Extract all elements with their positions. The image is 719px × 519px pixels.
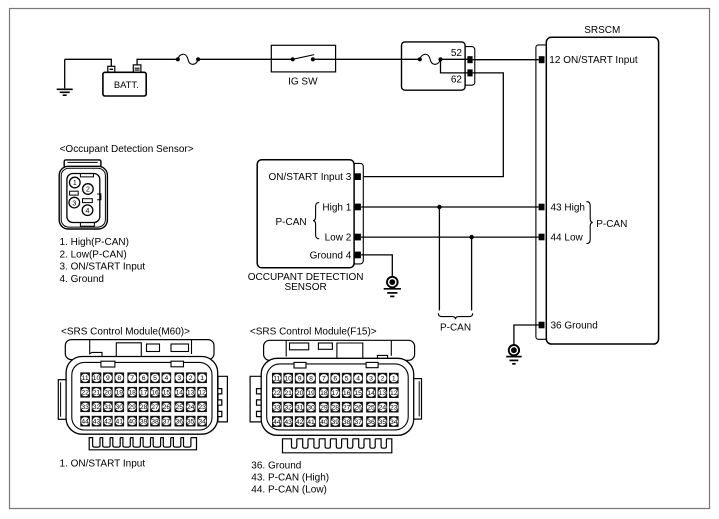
svg-text:6: 6 <box>333 376 337 383</box>
svg-text:13: 13 <box>187 390 195 397</box>
svg-text:34: 34 <box>390 419 398 426</box>
F15 bottom tab strip <box>283 439 392 453</box>
svg-text:ON/START Input 3: ON/START Input 3 <box>268 172 351 183</box>
fusible link (main fuse) <box>176 54 201 64</box>
svg-text:P-CAN: P-CAN <box>275 217 306 228</box>
wire: fusible link to ignition switch <box>198 58 293 60</box>
pin 62 <box>467 69 472 76</box>
svg-text:2: 2 <box>189 375 193 382</box>
svg-text:5: 5 <box>345 376 349 383</box>
svg-text:62: 62 <box>451 74 463 85</box>
svg-text:25: 25 <box>176 404 184 411</box>
F15 connector shell top <box>264 340 415 362</box>
SRSCM pin 12 <box>539 56 545 63</box>
svg-text:14: 14 <box>176 390 184 397</box>
fuse box <box>402 42 466 90</box>
svg-text:3: 3 <box>72 200 76 207</box>
sensor connector cavity 2 <box>83 184 94 195</box>
svg-text:7: 7 <box>130 375 134 382</box>
sensor pin 1 <box>355 204 361 211</box>
svg-text:Low 2: Low 2 <box>325 233 352 244</box>
svg-text:21: 21 <box>284 390 292 397</box>
M60 right teeth <box>218 376 227 422</box>
SRSCM pin 36 <box>539 322 545 329</box>
svg-text:19: 19 <box>116 390 124 397</box>
svg-text:High 1: High 1 <box>322 202 351 213</box>
wire: battery positive to fusible link <box>137 59 178 65</box>
ignition switch IG SW <box>271 45 335 87</box>
svg-text:1. High(P-CAN): 1. High(P-CAN) <box>60 237 129 248</box>
fuse (inside fuse box) <box>418 54 443 64</box>
svg-text:5: 5 <box>153 375 157 382</box>
svg-text:44. P-CAN (Low): 44. P-CAN (Low) <box>251 485 327 496</box>
svg-text:IG SW: IG SW <box>288 77 318 88</box>
wire: sensor Ground 4 to chassis ground <box>361 255 392 276</box>
svg-text:6: 6 <box>142 375 146 382</box>
F15 top tabs <box>294 362 306 368</box>
svg-text:1: 1 <box>73 180 77 187</box>
junction node on Low wire <box>469 235 473 239</box>
svg-text:36: 36 <box>367 419 375 426</box>
svg-text:4: 4 <box>165 375 169 382</box>
svg-text:34: 34 <box>198 419 206 426</box>
sensor connector cavity 4 <box>82 205 93 216</box>
sensor connector cavity 3 <box>69 197 80 208</box>
svg-text:12: 12 <box>390 390 398 397</box>
svg-text:4: 4 <box>356 376 360 383</box>
occupant detection sensor connector drawing <box>59 160 107 229</box>
fuse box connector strip (pins 52/62) <box>458 47 475 86</box>
svg-text:17: 17 <box>140 390 148 397</box>
svg-text:11: 11 <box>82 375 89 382</box>
ground (SRSCM pin 36) <box>506 345 521 364</box>
sensor connector strip <box>348 163 363 264</box>
svg-text:33: 33 <box>81 404 89 411</box>
svg-text:32: 32 <box>93 404 101 411</box>
svg-text:SRSCM: SRSCM <box>584 25 620 36</box>
svg-text:27: 27 <box>343 405 351 412</box>
svg-text:10: 10 <box>93 375 101 382</box>
ground (battery negative) <box>57 59 73 95</box>
svg-text:17: 17 <box>332 390 340 397</box>
svg-text:35: 35 <box>187 419 195 426</box>
svg-text:37: 37 <box>163 419 171 426</box>
F15 right ear <box>412 379 422 420</box>
svg-text:19: 19 <box>307 390 315 397</box>
svg-text:<Occupant Detection Sensor>: <Occupant Detection Sensor> <box>60 144 194 155</box>
svg-text:44: 44 <box>273 419 281 426</box>
svg-text:28: 28 <box>332 405 340 412</box>
svg-text:18: 18 <box>128 390 136 397</box>
F15 pin grid (pins 1-44) <box>272 373 282 384</box>
wire: High junction down to P-CAN pair <box>438 207 440 310</box>
svg-text:1: 1 <box>200 375 204 382</box>
svg-text:44: 44 <box>81 419 89 426</box>
svg-text:<SRS Control Module(M60)>: <SRS Control Module(M60)> <box>61 327 190 338</box>
wire: Low junction down to P-CAN pair <box>471 237 473 310</box>
svg-text:9: 9 <box>298 376 302 383</box>
wire: ignition switch to fuse box <box>336 58 420 60</box>
svg-text:27: 27 <box>151 404 159 411</box>
occupant detection sensor box <box>257 160 354 268</box>
svg-text:4. Ground: 4. Ground <box>60 274 104 285</box>
svg-text:30: 30 <box>116 404 124 411</box>
wire: ground to battery negative terminal <box>65 59 112 66</box>
svg-text:11: 11 <box>273 376 280 383</box>
sensor pin 4 <box>355 252 361 259</box>
svg-text:40: 40 <box>320 419 328 426</box>
svg-text:43: 43 <box>284 419 292 426</box>
svg-text:16: 16 <box>151 390 159 397</box>
svg-text:24: 24 <box>187 404 195 411</box>
svg-text:P-CAN: P-CAN <box>440 322 471 333</box>
sensor pin 3 <box>355 173 361 180</box>
svg-text:P-CAN: P-CAN <box>596 219 627 230</box>
svg-text:28: 28 <box>140 404 148 411</box>
svg-text:9: 9 <box>106 375 110 382</box>
junction node on High wire <box>437 205 441 209</box>
wire: sensor High 1 to SRSCM 43 <box>361 206 538 208</box>
svg-text:10: 10 <box>284 376 292 383</box>
svg-text:37: 37 <box>354 419 362 426</box>
SRSCM pin 44 <box>539 234 545 241</box>
svg-text:15: 15 <box>163 390 171 397</box>
wire: sensor Low 2 to SRSCM 44 <box>361 236 538 238</box>
svg-text:3: 3 <box>177 375 181 382</box>
F15 connector body <box>261 358 414 435</box>
svg-text:39: 39 <box>140 419 148 426</box>
svg-text:1. ON/START Input: 1. ON/START Input <box>60 458 146 469</box>
SRSCM module box <box>546 37 658 344</box>
svg-text:39: 39 <box>332 419 340 426</box>
M60 left ear <box>58 380 67 420</box>
wire: SRSCM 36 Ground to chassis ground <box>514 325 539 345</box>
svg-text:36 Ground: 36 Ground <box>551 321 598 332</box>
svg-text:38: 38 <box>343 419 351 426</box>
svg-text:SENSOR: SENSOR <box>284 282 326 293</box>
svg-text:8: 8 <box>117 375 121 382</box>
svg-text:<SRS Control Module(F15)>: <SRS Control Module(F15)> <box>250 327 377 338</box>
svg-text:12: 12 <box>198 390 206 397</box>
svg-text:36: 36 <box>176 419 184 426</box>
sensor pin 2 <box>355 234 361 241</box>
svg-text:23: 23 <box>198 404 206 411</box>
battery BATT. <box>103 65 146 96</box>
svg-text:2: 2 <box>86 187 90 194</box>
wire: fuse to pin 52 <box>441 58 468 60</box>
svg-text:Ground 4: Ground 4 <box>310 250 352 261</box>
svg-text:20: 20 <box>296 390 304 397</box>
F15 left teeth <box>250 376 261 422</box>
P-CAN brace (sensor side) <box>313 203 319 239</box>
svg-text:21: 21 <box>93 390 101 397</box>
sensor connector cavity 1 <box>70 177 81 188</box>
svg-text:18: 18 <box>320 390 328 397</box>
svg-text:33: 33 <box>273 405 281 412</box>
M60 connector shell top <box>65 340 214 360</box>
svg-text:29: 29 <box>128 404 136 411</box>
svg-text:29: 29 <box>320 405 328 412</box>
svg-text:44 Low: 44 Low <box>551 233 584 244</box>
svg-text:22: 22 <box>81 390 89 397</box>
svg-text:41: 41 <box>307 419 315 426</box>
wire: pin 62 to sensor pin 3 (ON/START) <box>361 73 503 177</box>
svg-text:43: 43 <box>93 419 101 426</box>
svg-text:23: 23 <box>390 405 398 412</box>
SRSCM connector strip <box>536 45 550 339</box>
svg-text:8: 8 <box>309 376 313 383</box>
svg-text:BATT.: BATT. <box>114 79 139 90</box>
wire: pin 52 to SRSCM pin 12 <box>473 59 539 61</box>
svg-text:43. P-CAN (High): 43. P-CAN (High) <box>251 473 329 484</box>
svg-text:32: 32 <box>284 405 292 412</box>
svg-text:13: 13 <box>379 390 387 397</box>
svg-text:26: 26 <box>354 405 362 412</box>
svg-text:3: 3 <box>369 376 373 383</box>
svg-text:14: 14 <box>367 390 375 397</box>
svg-text:3. ON/START Input: 3. ON/START Input <box>60 262 146 273</box>
svg-text:30: 30 <box>307 405 315 412</box>
svg-text:12 ON/START Input: 12 ON/START Input <box>549 55 638 66</box>
svg-text:2: 2 <box>381 376 385 383</box>
M60 top tabs <box>101 361 115 367</box>
svg-text:24: 24 <box>379 405 387 412</box>
svg-text:20: 20 <box>104 390 112 397</box>
svg-text:16: 16 <box>343 390 351 397</box>
wire: fuse branch to pin 62 <box>441 59 468 73</box>
svg-text:40: 40 <box>128 419 136 426</box>
svg-text:22: 22 <box>273 390 281 397</box>
M60 pin grid (pins 1-44) <box>80 372 90 383</box>
svg-text:43 High: 43 High <box>551 203 585 214</box>
M60 connector body <box>66 357 218 435</box>
ground (sensor pin 4) <box>384 277 401 297</box>
svg-text:4: 4 <box>86 208 90 215</box>
svg-text:25: 25 <box>367 405 375 412</box>
svg-text:31: 31 <box>296 405 304 412</box>
svg-text:36. Ground: 36. Ground <box>251 460 301 471</box>
P-CAN brace (SRSCM side) <box>587 202 593 244</box>
M60 bottom tab strip <box>89 438 196 450</box>
svg-text:15: 15 <box>354 390 362 397</box>
svg-text:2. Low(P-CAN): 2. Low(P-CAN) <box>60 249 127 260</box>
SRSCM pin 43 <box>539 204 545 211</box>
svg-text:42: 42 <box>296 419 304 426</box>
svg-text:26: 26 <box>163 404 171 411</box>
svg-text:7: 7 <box>322 376 326 383</box>
svg-text:41: 41 <box>116 419 124 426</box>
svg-text:38: 38 <box>151 419 159 426</box>
svg-text:52: 52 <box>451 48 463 59</box>
svg-text:31: 31 <box>104 404 112 411</box>
P-CAN underbrace <box>438 313 472 319</box>
pin 52 <box>467 56 472 63</box>
svg-text:42: 42 <box>104 419 112 426</box>
svg-text:35: 35 <box>379 419 387 426</box>
svg-text:1: 1 <box>392 376 396 383</box>
